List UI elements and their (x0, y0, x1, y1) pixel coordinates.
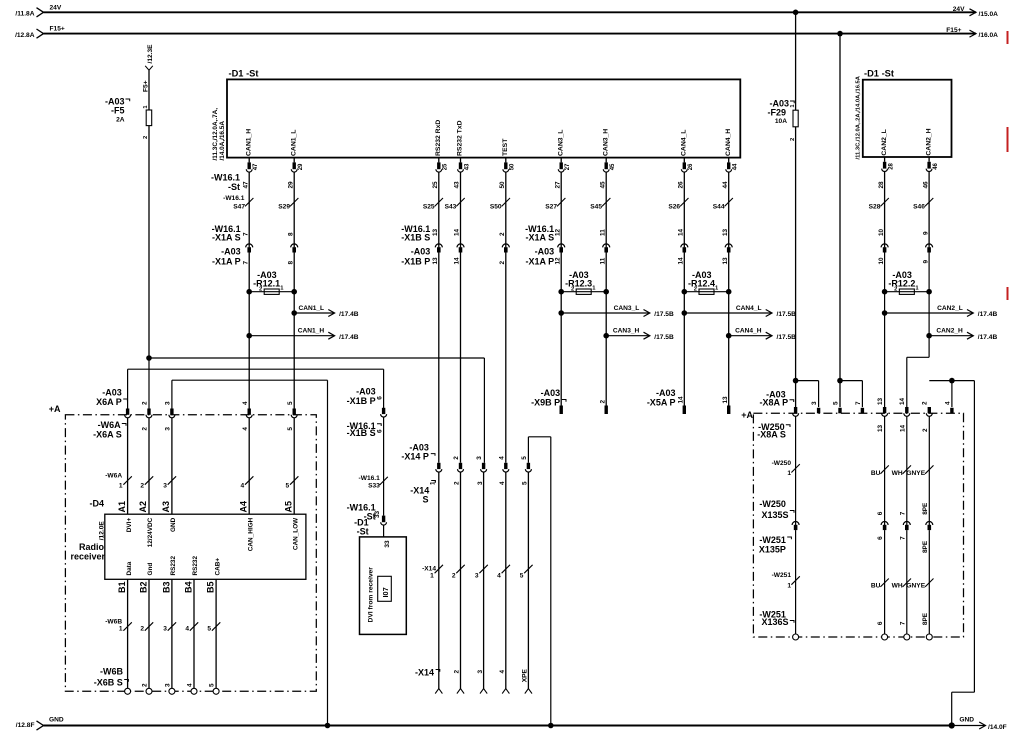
svg-text:CAN1_L: CAN1_L (298, 305, 324, 312)
svg-text:GND: GND (959, 716, 974, 723)
svg-text:S27: S27 (545, 203, 557, 210)
svg-text:50: 50 (499, 181, 506, 189)
svg-text:B3: B3 (162, 582, 172, 594)
svg-text:2: 2 (454, 670, 461, 674)
svg-text:-X1A P: -X1A P (526, 257, 555, 267)
svg-text:CAN3_H: CAN3_H (602, 129, 609, 156)
svg-text:B1: B1 (117, 582, 127, 594)
svg-text:-X14: -X14 (422, 566, 436, 573)
svg-text:CAN4_L: CAN4_L (681, 130, 688, 156)
svg-text:/17.5B: /17.5B (654, 311, 674, 318)
svg-text:RS232: RS232 (170, 556, 177, 576)
svg-text:6: 6 (877, 536, 884, 540)
svg-text:/17.5B: /17.5B (777, 334, 797, 341)
svg-text:/12.8A: /12.8A (15, 32, 35, 39)
svg-text:/14.0F: /14.0F (988, 724, 1007, 731)
svg-text:1: 1 (119, 483, 123, 490)
svg-text:3: 3 (165, 683, 172, 687)
svg-text:/12.0E: /12.0E (99, 521, 106, 541)
svg-text:-W250: -W250 (772, 460, 792, 467)
svg-text:13: 13 (432, 257, 439, 265)
svg-text:GNYE: GNYE (906, 582, 925, 589)
svg-text:-D4: -D4 (89, 499, 104, 509)
svg-text:7: 7 (242, 261, 249, 265)
svg-text:RS232 TxD: RS232 TxD (457, 120, 464, 156)
svg-text:S46: S46 (913, 203, 925, 210)
svg-text:CAN2_L: CAN2_L (937, 305, 963, 312)
svg-text:2: 2 (922, 428, 929, 432)
svg-text:I07: I07 (381, 587, 390, 597)
svg-text:8PE: 8PE (922, 612, 929, 625)
svg-text:-R12.2: -R12.2 (888, 278, 915, 288)
svg-text:4: 4 (187, 683, 194, 687)
svg-text:CAN1_H: CAN1_H (245, 129, 252, 156)
svg-text:13: 13 (722, 228, 729, 236)
svg-text:2: 2 (894, 287, 897, 293)
svg-text:-A03: -A03 (411, 247, 431, 257)
svg-text:X135P: X135P (759, 545, 786, 555)
svg-text:S50: S50 (490, 203, 502, 210)
svg-text:13: 13 (432, 228, 439, 236)
svg-text:2A: 2A (116, 117, 125, 124)
svg-text:5: 5 (832, 401, 839, 405)
svg-text:2: 2 (499, 232, 506, 236)
svg-text:Data: Data (126, 561, 133, 575)
svg-text:9: 9 (922, 260, 929, 264)
svg-text:receiver: receiver (70, 551, 105, 561)
svg-text:7: 7 (855, 401, 862, 405)
svg-text:8: 8 (287, 261, 294, 265)
svg-text:CAN3_L: CAN3_L (614, 305, 640, 312)
svg-text:-X8A S: -X8A S (757, 429, 786, 439)
svg-text:10A: 10A (775, 118, 787, 125)
svg-text:3: 3 (163, 626, 167, 633)
svg-text:43: 43 (464, 163, 470, 170)
svg-text:-X1A S: -X1A S (526, 232, 555, 242)
svg-text:2: 2 (142, 427, 149, 431)
svg-text:4: 4 (498, 456, 505, 460)
svg-text:50: 50 (510, 163, 516, 170)
svg-text:CAN3_H: CAN3_H (613, 328, 640, 335)
svg-text:14: 14 (899, 424, 906, 432)
svg-text:2: 2 (694, 287, 697, 293)
svg-text:1: 1 (787, 582, 791, 589)
svg-text:CAN1_H: CAN1_H (298, 328, 325, 335)
svg-text:3: 3 (165, 427, 172, 431)
svg-text:X6A P: X6A P (96, 397, 122, 407)
svg-text:-X6A S: -X6A S (93, 429, 122, 439)
svg-text:-W6A: -W6A (105, 473, 122, 480)
svg-text:RS232 RxD: RS232 RxD (435, 120, 442, 156)
svg-text:GND: GND (170, 517, 177, 532)
svg-text:13: 13 (877, 424, 884, 432)
svg-text:-A03: -A03 (535, 247, 555, 257)
svg-text:47: 47 (253, 163, 259, 170)
svg-text:DVI from receiver: DVI from receiver (367, 567, 374, 623)
svg-text:F5+: F5+ (142, 80, 149, 92)
svg-text:CAN_LOW: CAN_LOW (292, 517, 299, 550)
svg-text:S47: S47 (233, 203, 245, 210)
svg-text:-W16.1: -W16.1 (223, 195, 245, 202)
svg-text:13: 13 (722, 257, 729, 265)
svg-text:45: 45 (599, 181, 606, 189)
svg-text:4: 4 (499, 670, 506, 674)
svg-text:24V: 24V (953, 6, 965, 13)
svg-text:X135S: X135S (761, 510, 788, 520)
svg-text:CAN4_H: CAN4_H (735, 328, 762, 335)
svg-text:14: 14 (454, 228, 461, 236)
svg-text:CAB+: CAB+ (214, 558, 221, 576)
svg-text:A5: A5 (283, 501, 293, 513)
svg-text:4: 4 (499, 481, 506, 485)
svg-text:5: 5 (287, 427, 294, 431)
svg-text:46: 46 (922, 181, 929, 189)
svg-text:3: 3 (811, 401, 818, 405)
svg-text:-X1B S: -X1B S (347, 428, 376, 438)
svg-text:-W6B: -W6B (105, 619, 122, 626)
svg-text:BU: BU (871, 470, 881, 477)
svg-text:/16.0A: /16.0A (979, 32, 999, 39)
svg-text:-F5: -F5 (111, 106, 125, 116)
svg-text:5: 5 (207, 626, 211, 633)
svg-text:-X5A P: -X5A P (647, 397, 676, 407)
svg-text:44: 44 (733, 163, 739, 170)
svg-text:46: 46 (933, 162, 939, 169)
svg-text:14: 14 (678, 396, 685, 404)
svg-text:-F29: -F29 (767, 108, 786, 118)
svg-text:3: 3 (477, 670, 484, 674)
svg-text:13: 13 (877, 397, 884, 405)
svg-text:12: 12 (554, 228, 561, 236)
svg-text:-R12.1: -R12.1 (253, 278, 280, 288)
svg-text:CAN2_L: CAN2_L (881, 129, 888, 155)
svg-text:-A03: -A03 (221, 247, 241, 257)
svg-text:2: 2 (140, 483, 144, 490)
svg-text:A2: A2 (138, 501, 148, 513)
svg-text:/17.5B: /17.5B (777, 311, 797, 318)
svg-text:12: 12 (554, 257, 561, 265)
svg-text:-R12.4: -R12.4 (688, 278, 715, 288)
svg-text:CAN2_H: CAN2_H (925, 128, 932, 155)
svg-text:14: 14 (678, 228, 685, 236)
svg-text:4: 4 (241, 483, 245, 490)
svg-text:+A: +A (741, 410, 753, 420)
svg-text:6: 6 (877, 511, 884, 515)
svg-text:14: 14 (899, 397, 906, 405)
svg-text:2: 2 (140, 626, 144, 633)
svg-text:5: 5 (522, 481, 529, 485)
svg-text:10: 10 (878, 228, 885, 236)
svg-text:S33: S33 (368, 483, 380, 490)
svg-text:8PE: 8PE (922, 540, 929, 553)
svg-text:BU: BU (871, 582, 881, 589)
svg-text:-D1 -St: -D1 -St (864, 69, 894, 79)
svg-text:2: 2 (143, 136, 149, 139)
svg-text:1: 1 (787, 470, 791, 477)
svg-text:43: 43 (454, 181, 461, 189)
svg-text:26: 26 (678, 181, 685, 189)
svg-text:-W6B: -W6B (100, 667, 123, 677)
svg-text:45: 45 (610, 163, 616, 170)
svg-text:-W251: -W251 (759, 535, 786, 545)
svg-text:-X1B P: -X1B P (347, 396, 376, 406)
svg-text:/17.4B: /17.4B (978, 311, 998, 318)
svg-text:-X1A S: -X1A S (212, 232, 241, 242)
svg-text:2: 2 (922, 401, 929, 405)
svg-text:27: 27 (554, 181, 561, 189)
svg-text:-X1A P: -X1A P (212, 257, 241, 267)
svg-text:CAN3_L: CAN3_L (557, 130, 564, 156)
svg-text:-W16.1: -W16.1 (359, 475, 381, 482)
svg-text:2: 2 (142, 401, 149, 405)
svg-text:-X1B S: -X1B S (401, 232, 430, 242)
svg-text:1: 1 (119, 626, 123, 633)
svg-text:CAN2_H: CAN2_H (936, 328, 963, 335)
svg-text:5: 5 (521, 456, 528, 460)
svg-text:9: 9 (922, 231, 929, 235)
svg-text:7: 7 (899, 621, 906, 625)
svg-text:13: 13 (722, 396, 729, 404)
svg-text:-X14 P: -X14 P (401, 451, 429, 461)
svg-text:44: 44 (722, 181, 729, 189)
svg-text:+A: +A (49, 404, 61, 414)
svg-text:/17.4B: /17.4B (339, 334, 359, 341)
svg-text:A3: A3 (161, 501, 171, 513)
svg-text:S29: S29 (278, 203, 290, 210)
svg-text:25: 25 (443, 163, 449, 170)
svg-text:26: 26 (688, 163, 694, 170)
svg-text:/12.8F: /12.8F (16, 722, 35, 729)
svg-text:2: 2 (453, 456, 460, 460)
svg-text:B5: B5 (206, 582, 216, 594)
svg-text:12/24VDC: 12/24VDC (147, 517, 154, 547)
svg-text:F15+: F15+ (946, 27, 961, 34)
svg-text:GND: GND (49, 716, 64, 723)
svg-text:-X9B P: -X9B P (531, 397, 560, 407)
svg-text:-X6B S: -X6B S (94, 678, 123, 688)
svg-text:S: S (422, 495, 428, 505)
svg-text:10: 10 (878, 257, 885, 265)
svg-text:/17.4B: /17.4B (978, 334, 998, 341)
svg-text:4: 4 (497, 573, 501, 580)
svg-text:11: 11 (599, 229, 606, 236)
svg-text:XPE: XPE (522, 669, 529, 683)
svg-text:/15.0A: /15.0A (979, 11, 999, 18)
svg-text:CAN1_L: CAN1_L (290, 130, 297, 156)
svg-text:S43: S43 (445, 203, 457, 210)
svg-text:-St: -St (357, 527, 369, 537)
svg-text:2: 2 (571, 287, 574, 293)
svg-text:/11.3C,/12.0A,.2A,/14.0A,/16.5: /11.3C,/12.0A,.2A,/14.0A,/16.5A (855, 75, 861, 159)
svg-text:5: 5 (286, 483, 290, 490)
svg-text:/17.5B: /17.5B (654, 334, 674, 341)
svg-text:7: 7 (899, 536, 906, 540)
svg-text:/12.3E: /12.3E (147, 44, 154, 64)
svg-text:B2: B2 (139, 582, 149, 594)
svg-text:27: 27 (565, 163, 571, 170)
svg-text:5: 5 (287, 401, 294, 405)
svg-text:14: 14 (454, 257, 461, 265)
svg-text:-X8A P: -X8A P (760, 397, 789, 407)
svg-text:CAN4_L: CAN4_L (736, 305, 762, 312)
svg-text:6: 6 (877, 621, 884, 625)
svg-text:8: 8 (287, 232, 294, 236)
svg-text:2: 2 (790, 138, 796, 141)
svg-text:-D1 -St: -D1 -St (229, 68, 259, 78)
svg-text:-R12.3: -R12.3 (565, 278, 592, 288)
svg-text:S25: S25 (423, 203, 435, 210)
svg-text:2: 2 (142, 683, 149, 687)
svg-text:5: 5 (209, 683, 216, 687)
svg-text:2: 2 (499, 261, 506, 265)
svg-text:3: 3 (476, 456, 483, 460)
svg-text:2: 2 (452, 573, 456, 580)
svg-text:7: 7 (242, 232, 249, 236)
svg-text:S28: S28 (869, 203, 881, 210)
svg-text:3: 3 (475, 573, 479, 580)
svg-text:33: 33 (384, 540, 391, 548)
svg-text:28: 28 (888, 162, 894, 169)
svg-text:S26: S26 (668, 203, 680, 210)
svg-text:3: 3 (165, 401, 172, 405)
svg-text:4: 4 (242, 401, 249, 405)
svg-text:6: 6 (376, 396, 383, 400)
svg-text:28: 28 (878, 181, 885, 189)
svg-text:25: 25 (432, 181, 439, 189)
svg-text:/11.8A: /11.8A (15, 11, 34, 18)
svg-text:S45: S45 (590, 203, 602, 210)
svg-text:A1: A1 (117, 501, 127, 513)
svg-text:4: 4 (185, 626, 189, 633)
svg-text:4: 4 (944, 401, 951, 405)
svg-text:2: 2 (454, 481, 461, 485)
svg-text:WH: WH (892, 582, 903, 589)
svg-text:/17.4B: /17.4B (339, 311, 359, 318)
svg-text:1: 1 (430, 573, 434, 580)
svg-text:2: 2 (599, 400, 606, 404)
svg-text:-St: -St (228, 182, 240, 192)
svg-text:29: 29 (298, 163, 304, 170)
svg-text:CAN_HIGH: CAN_HIGH (247, 517, 254, 551)
svg-text:S44: S44 (713, 203, 725, 210)
svg-text:4: 4 (242, 427, 249, 431)
svg-text:GNYE: GNYE (906, 470, 925, 477)
svg-text:TEST: TEST (502, 138, 509, 156)
svg-text:A4: A4 (238, 501, 248, 513)
svg-text:CAN4_H: CAN4_H (725, 129, 732, 156)
svg-text:8PE: 8PE (922, 502, 929, 515)
svg-text:3: 3 (163, 483, 167, 490)
svg-text:14: 14 (678, 257, 685, 265)
svg-text:33: 33 (374, 510, 381, 518)
svg-text:RS232: RS232 (192, 556, 199, 576)
svg-text:6: 6 (376, 429, 383, 433)
svg-text:WH: WH (892, 470, 903, 477)
svg-text:47: 47 (242, 181, 249, 189)
svg-text:11: 11 (599, 257, 606, 264)
svg-text:2: 2 (259, 287, 262, 293)
svg-text:Gnd: Gnd (147, 563, 154, 576)
svg-text:F15+: F15+ (50, 26, 65, 33)
svg-text:-X14: -X14 (415, 668, 434, 678)
svg-text:B4: B4 (184, 582, 194, 594)
svg-text:/11.3C,/12.0A,.7A,: /11.3C,/12.0A,.7A, (212, 108, 219, 161)
svg-text:-W251: -W251 (772, 572, 792, 579)
svg-text:DVI+: DVI+ (126, 518, 133, 533)
svg-text:5: 5 (520, 573, 524, 580)
svg-text:-X1B P: -X1B P (401, 257, 430, 267)
svg-text:24V: 24V (50, 4, 62, 11)
svg-text:7: 7 (899, 511, 906, 515)
svg-text:/14.0A,/16.5A: /14.0A,/16.5A (219, 121, 226, 161)
svg-text:29: 29 (287, 181, 294, 189)
svg-text:-W250: -W250 (759, 499, 786, 509)
svg-text:X136S: X136S (761, 617, 788, 627)
svg-text:3: 3 (477, 481, 484, 485)
